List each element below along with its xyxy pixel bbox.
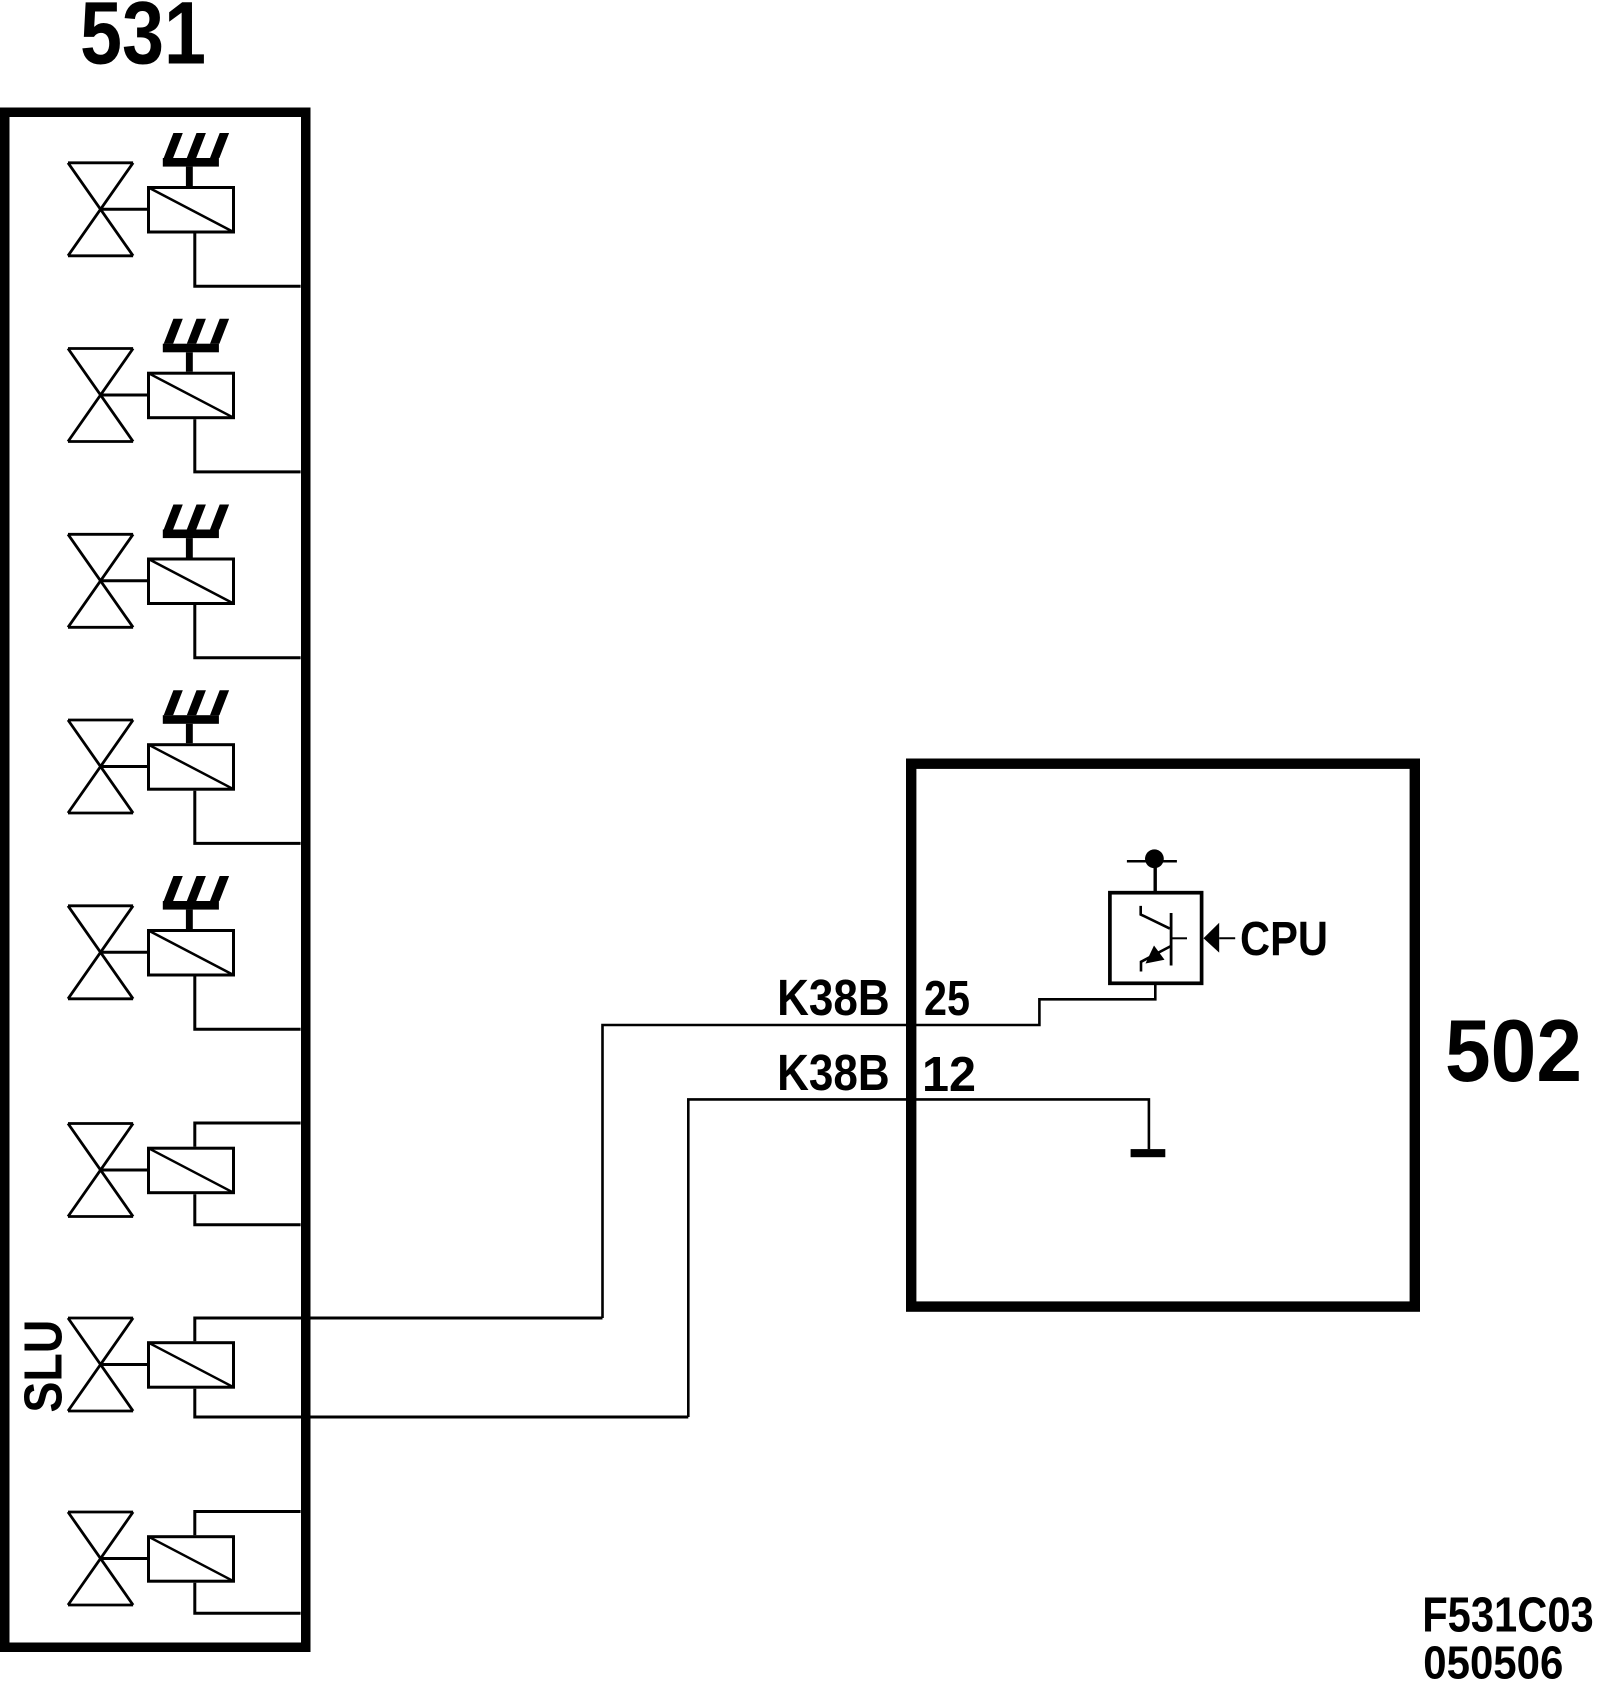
svg-text:050506: 050506 [1423, 1636, 1563, 1688]
svg-text:F531C03: F531C03 [1422, 1587, 1594, 1642]
svg-text:502: 502 [1445, 1001, 1582, 1100]
svg-text:CPU: CPU [1240, 912, 1328, 966]
svg-text:K38B: K38B [777, 969, 890, 1026]
svg-text:25: 25 [924, 971, 970, 1026]
svg-text:SLU: SLU [13, 1320, 73, 1413]
svg-text:12: 12 [922, 1047, 976, 1102]
svg-text:531: 531 [80, 0, 206, 82]
svg-text:K38B: K38B [777, 1044, 890, 1101]
